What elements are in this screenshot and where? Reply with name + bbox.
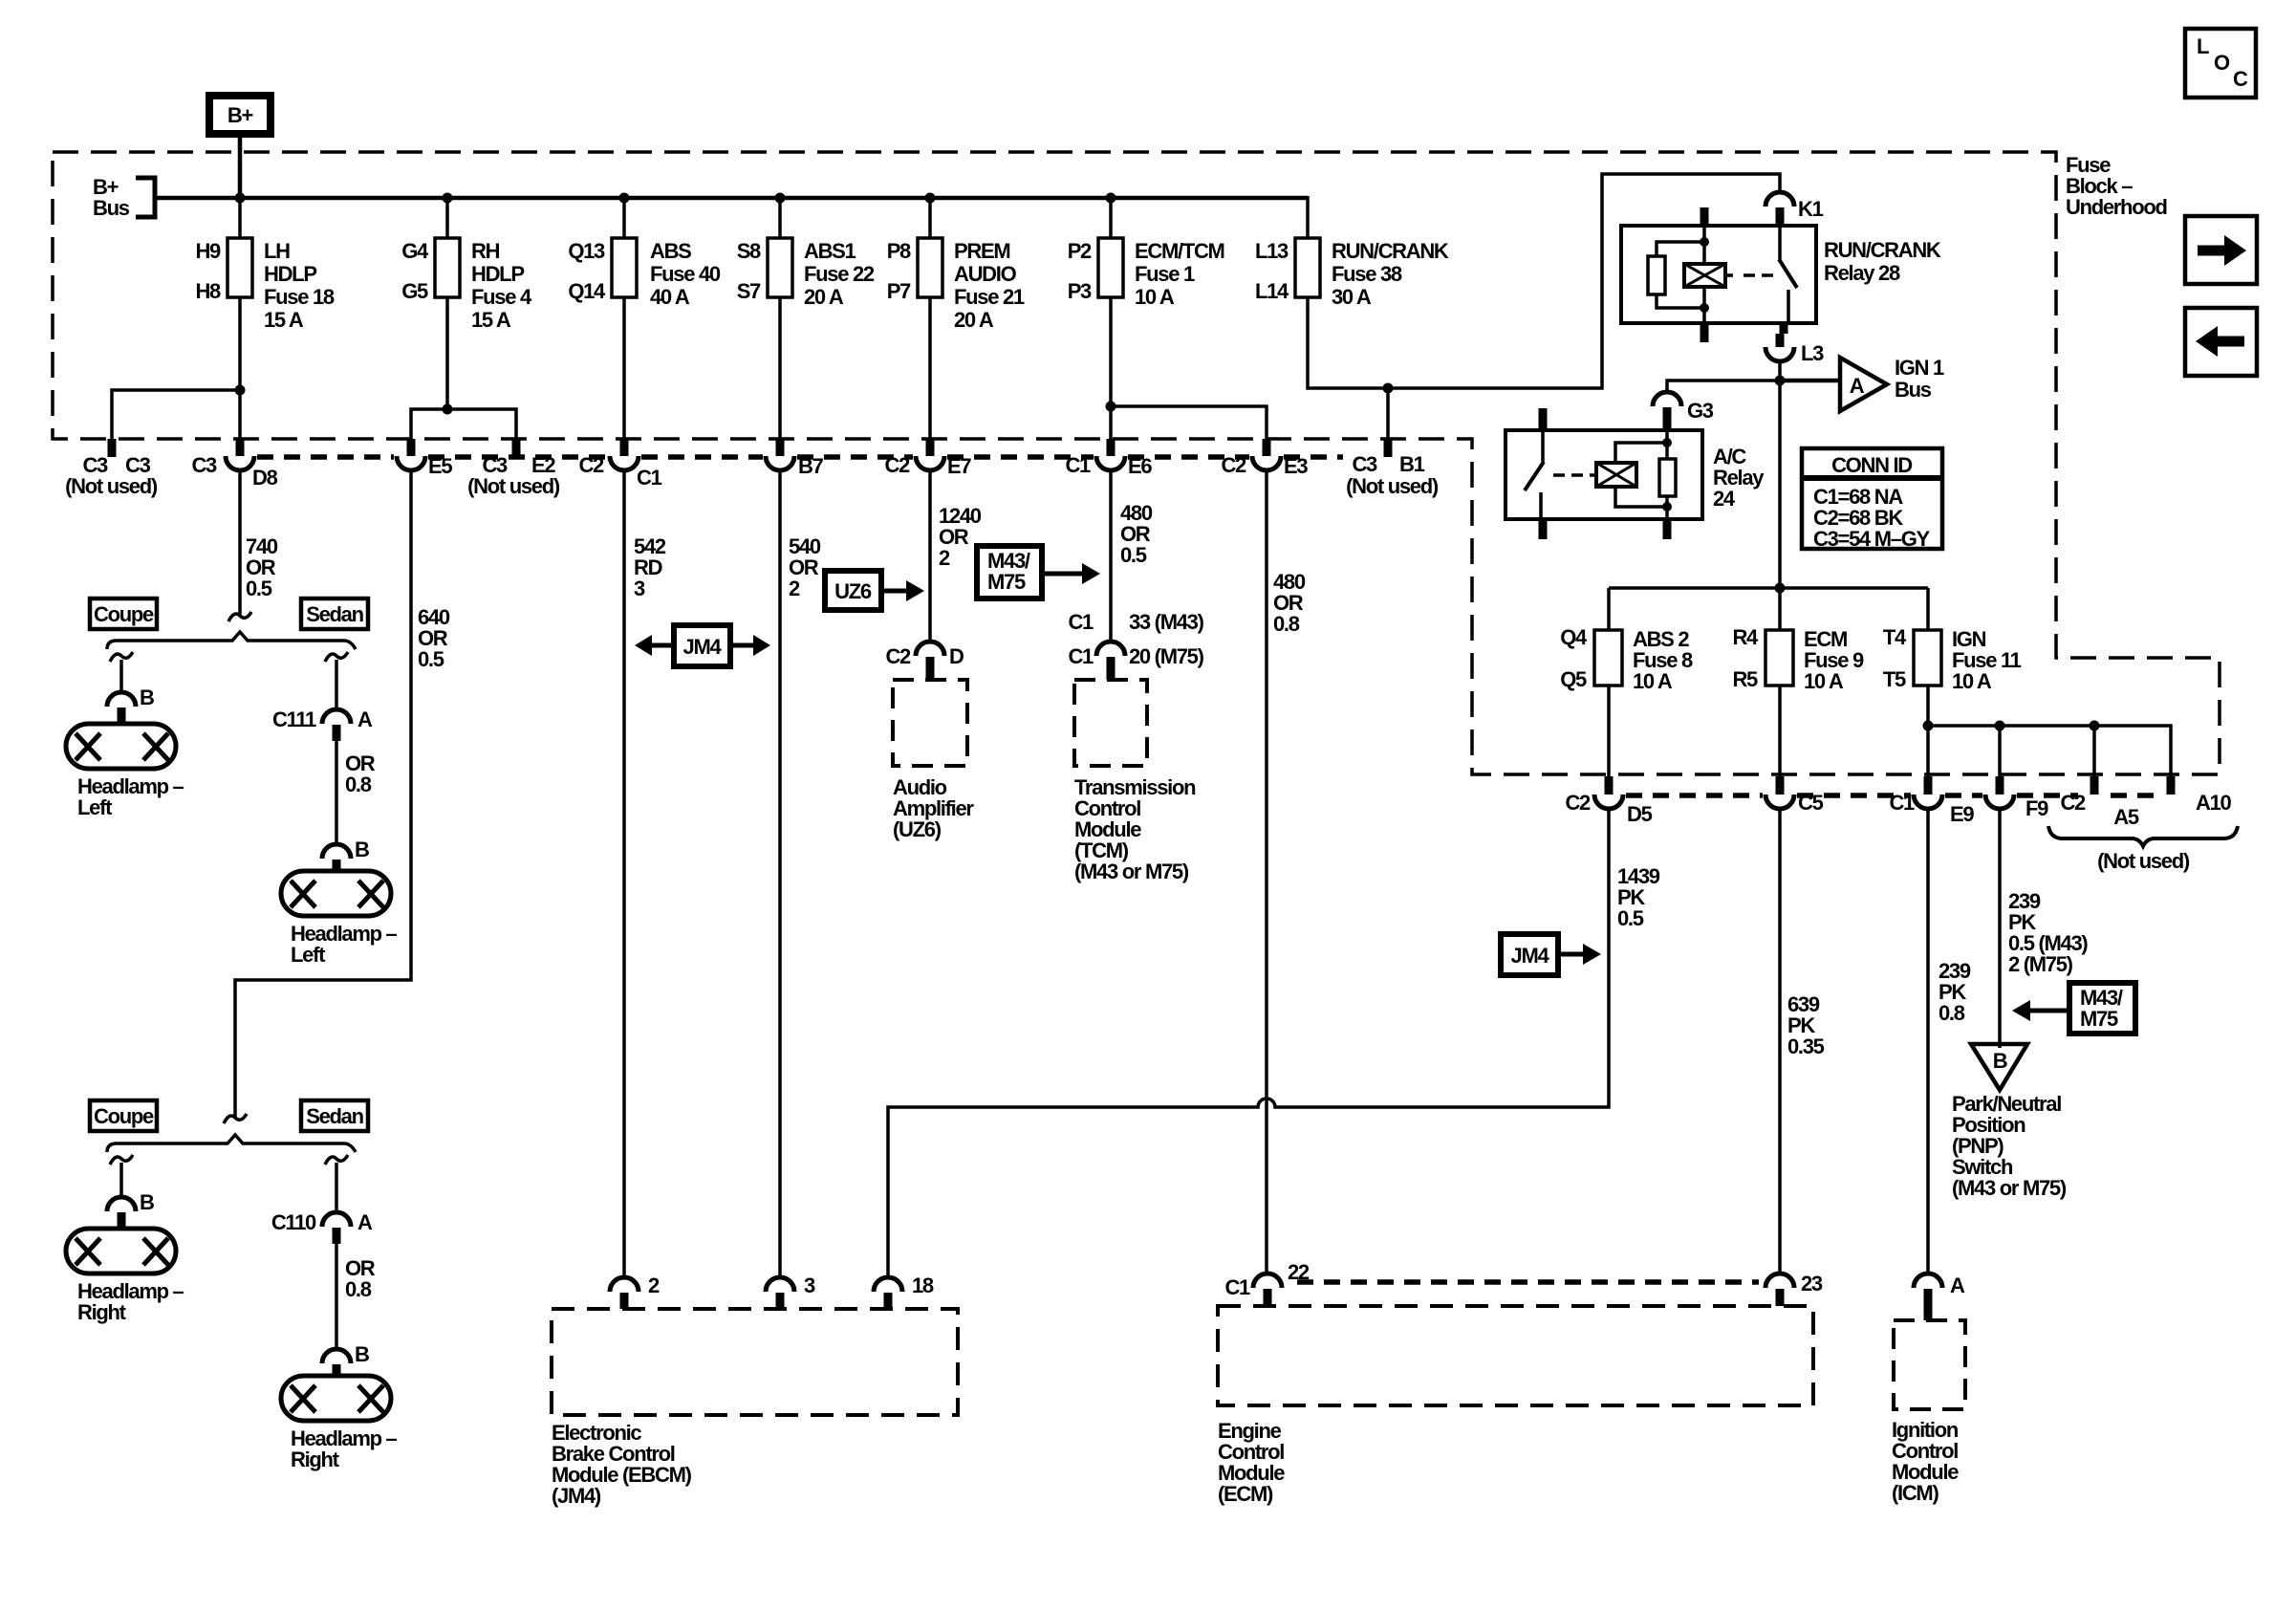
- svg-text:C111: C111: [272, 708, 316, 731]
- label box M43/M75 (PNP pointer) with arrow: [2012, 983, 2135, 1034]
- not used brace: [2048, 826, 2238, 846]
- svg-text:HDLP: HDLP: [471, 262, 524, 286]
- wire break symbol: [224, 1114, 247, 1123]
- svg-text:(M43 or M75): (M43 or M75): [1952, 1176, 2067, 1200]
- svg-text:33 (M43): 33 (M43): [1129, 610, 1204, 634]
- connector ECM pin 23: [1765, 1272, 1823, 1306]
- relay resistor (main branch): [1665, 430, 1669, 459]
- svg-text:S7: S7: [737, 279, 761, 303]
- svg-text:H9: H9: [195, 239, 221, 263]
- connector stub A5: [2090, 776, 2099, 795]
- electronic brake control module box: [552, 1309, 958, 1508]
- wire branch to C3 stub: [112, 390, 240, 439]
- svg-text:P2: P2: [1068, 239, 1092, 263]
- wire label 740 OR 0.5: [246, 534, 278, 600]
- svg-text:Bus: Bus: [1895, 378, 1932, 402]
- svg-text:Left: Left: [77, 795, 113, 819]
- wire bus drop to LH HDLP fuse: [238, 198, 242, 238]
- wire drop to ECM fuse: [1778, 588, 1782, 630]
- svg-text:G4: G4: [401, 239, 429, 263]
- wire C5 to ECM pin 23: [1778, 809, 1782, 1274]
- svg-text:A5: A5: [2113, 805, 2139, 829]
- headlamp left (coupe): [66, 724, 184, 819]
- svg-text:Q5: Q5: [1560, 667, 1587, 691]
- wire junction to IGN1 bus triangle: [1780, 379, 1840, 383]
- audio amplifier box: [893, 680, 974, 841]
- wire left branch to headlamp B: [119, 1163, 123, 1197]
- svg-text:3: 3: [634, 577, 645, 600]
- wire label 480 OR 0.8: [1273, 570, 1306, 636]
- svg-text:P3: P3: [1068, 279, 1092, 303]
- connector C110 A: [271, 1210, 373, 1244]
- svg-text:RH: RH: [471, 239, 500, 263]
- headlamp right (coupe): [66, 1229, 184, 1324]
- svg-text:L: L: [2197, 34, 2209, 58]
- svg-text:HDLP: HDLP: [264, 262, 316, 286]
- svg-text:Coupe: Coupe: [94, 602, 154, 626]
- svg-text:0.8: 0.8: [345, 1277, 372, 1301]
- CONN ID table: [1802, 448, 1942, 551]
- wire label OR 0.8: [345, 1256, 376, 1301]
- connector D8: [191, 439, 277, 490]
- relay coil (box-X): [1590, 473, 1596, 477]
- svg-text:RUN/CRANK: RUN/CRANK: [1332, 239, 1449, 263]
- svg-text:C1: C1: [1224, 1275, 1250, 1299]
- label box Coupe: [90, 1100, 157, 1131]
- wire junction to G3: [1667, 381, 1780, 392]
- coil pin stub top: [1700, 207, 1709, 226]
- switch pin stub bottom: [1780, 323, 1788, 334]
- svg-text:H8: H8: [195, 279, 221, 303]
- connector C5: [1765, 776, 1824, 815]
- svg-text:B1: B1: [1399, 452, 1425, 476]
- wire C1 ABS to EBCM pin 2: [622, 470, 626, 1277]
- label Fuse Block Underhood: [2066, 153, 2167, 219]
- wire break symbol right branch: [325, 652, 348, 662]
- wire D5 to EBCM pin 18 (with hop over E3): [888, 809, 1609, 1277]
- label box UZ6 with arrow: [825, 571, 924, 610]
- svg-text:T5: T5: [1883, 667, 1906, 691]
- wire ECM/TCM fuse output: [1109, 297, 1113, 442]
- wire label 542 RD 3: [634, 534, 666, 600]
- connector EBCM pin 18: [874, 1274, 934, 1309]
- svg-text:0.8: 0.8: [1273, 612, 1300, 636]
- connector E3: [1221, 439, 1308, 478]
- svg-text:(UZ6): (UZ6): [893, 817, 942, 841]
- connector C1 (ABS): [578, 439, 661, 490]
- fuse 1 ECM/TCM: [1068, 238, 1224, 309]
- wire sedan branch to C111: [335, 660, 338, 709]
- node junction ECM/TCM output: [1106, 402, 1116, 412]
- svg-text:C1: C1: [637, 466, 662, 490]
- wire bus corner drop to RUN/CRANK fuse: [1306, 196, 1310, 238]
- connector G3: [1653, 392, 1714, 430]
- wire RH fuse output: [445, 297, 449, 409]
- svg-text:D: D: [949, 644, 964, 668]
- svg-text:Fuse 22: Fuse 22: [804, 262, 875, 286]
- svg-text:C110: C110: [271, 1210, 316, 1234]
- wire label 1240 OR 2: [939, 504, 982, 570]
- wire E9 to ICM A: [1926, 809, 1930, 1274]
- headlamp left (sedan): [281, 871, 398, 967]
- svg-text:M75: M75: [987, 570, 1026, 594]
- connector EBCM pin 2: [610, 1274, 660, 1309]
- switch pin stub bottom: [1539, 519, 1548, 539]
- svg-text:S8: S8: [737, 239, 761, 263]
- connector D5: [1565, 776, 1652, 826]
- svg-text:15 A: 15 A: [471, 308, 511, 332]
- LOC page symbol: [2185, 29, 2256, 98]
- svg-text:Sedan: Sedan: [306, 1104, 363, 1128]
- svg-text:G5: G5: [401, 279, 428, 303]
- wire label 239 PK 0.5 (M43) 2 (M75): [2008, 889, 2088, 976]
- svg-text:20 (M75): 20 (M75): [1129, 644, 1204, 668]
- svg-text:JM4: JM4: [1511, 944, 1550, 968]
- svg-text:PREM: PREM: [954, 239, 1009, 263]
- svg-text:Q4: Q4: [1560, 625, 1588, 649]
- label box Sedan: [301, 1100, 368, 1131]
- ignition control module box: [1892, 1320, 1965, 1505]
- wire bus drop to RH HDLP fuse: [445, 198, 449, 238]
- svg-text:15 A: 15 A: [264, 308, 304, 332]
- wire branch to E2 stub: [447, 409, 516, 439]
- svg-text:Coupe: Coupe: [94, 1104, 154, 1128]
- node junction B1 tap: [1383, 383, 1394, 394]
- svg-text:18: 18: [912, 1274, 934, 1297]
- svg-text:Underhood: Underhood: [2066, 195, 2167, 219]
- svg-text:Relay 28: Relay 28: [1824, 261, 1900, 285]
- connector E6: [1065, 439, 1152, 478]
- svg-text:Bus: Bus: [93, 196, 130, 220]
- node junction on LH output: [235, 385, 246, 396]
- transmission control module box: [1074, 680, 1196, 883]
- svg-text:RUN/CRANK: RUN/CRANK: [1824, 238, 1941, 262]
- wire E3 to ECM pin 22: [1265, 470, 1268, 1274]
- svg-text:E9: E9: [1950, 802, 1974, 826]
- wire label 480 OR 0.5: [1120, 501, 1153, 567]
- engine control module box: [1218, 1306, 1813, 1506]
- labels C2 A5 A10: [2060, 791, 2231, 829]
- wire branch to E3: [1111, 406, 1267, 439]
- connector C1 TCM pins 33/20: [1068, 610, 1203, 680]
- svg-text:CONN ID: CONN ID: [1831, 453, 1912, 477]
- svg-text:C3: C3: [1352, 452, 1377, 476]
- svg-text:Sedan: Sedan: [306, 602, 363, 626]
- fuse 11 IGN: [1883, 625, 2022, 693]
- svg-text:Fuse 1: Fuse 1: [1135, 262, 1195, 286]
- switch pin stub top (not connected): [1539, 408, 1548, 430]
- power symbol B+: [209, 96, 271, 134]
- svg-text:LH: LH: [264, 239, 290, 263]
- node junction IGN output: [1923, 721, 1934, 731]
- relay 24 dashed actuator link: [1553, 473, 1583, 477]
- svg-text:10 A: 10 A: [1135, 285, 1175, 309]
- svg-text:L14: L14: [1255, 279, 1289, 303]
- wire bus drop to PREM AUDIO fuse: [928, 198, 932, 238]
- nav arrow box right: [2185, 216, 2257, 284]
- wire label 239 PK 0.8: [1939, 959, 1971, 1025]
- svg-text:B: B: [140, 686, 154, 709]
- svg-text:B: B: [355, 838, 369, 861]
- svg-text:AUDIO: AUDIO: [954, 262, 1017, 286]
- wire F9 to PNP switch B: [1998, 809, 2002, 1048]
- svg-text:UZ6: UZ6: [834, 579, 872, 603]
- wire break symbol left branch: [110, 652, 133, 662]
- connector stub B1 C3 not used: [1346, 439, 1439, 498]
- svg-text:2: 2: [648, 1274, 660, 1297]
- svg-text:10 A: 10 A: [1633, 669, 1673, 693]
- svg-text:C1: C1: [1068, 610, 1094, 634]
- coil parallel links: [1615, 443, 1667, 463]
- wire A5 drop: [2092, 726, 2096, 776]
- svg-text:(ECM): (ECM): [1218, 1482, 1273, 1506]
- wire left branch to headlamp B: [119, 660, 123, 692]
- svg-text:0.35: 0.35: [1787, 1034, 1825, 1058]
- svg-text:A10: A10: [2196, 791, 2232, 815]
- wire B+ to bus: [238, 134, 243, 198]
- svg-text:Fuse 21: Fuse 21: [954, 285, 1025, 309]
- wire B+ bus: [155, 196, 1308, 201]
- wire label 640 OR 0.5: [418, 605, 450, 671]
- fuse 18 LH HDLP: [195, 238, 334, 332]
- wire bus drop to ABS fuse: [622, 198, 626, 238]
- wire break symbol right branch: [325, 1155, 348, 1165]
- fuse 4 RH HDLP: [401, 238, 532, 332]
- svg-text:D8: D8: [252, 466, 278, 490]
- connector C2 D (audio amplifier): [885, 642, 964, 680]
- svg-text:3: 3: [804, 1274, 815, 1297]
- svg-text:Fuse 4: Fuse 4: [471, 285, 532, 309]
- svg-text:0.5: 0.5: [418, 647, 444, 671]
- svg-text:(ICM): (ICM): [1892, 1481, 1939, 1505]
- label box M43/M75 (TCM pointer) with arrow: [977, 546, 1100, 599]
- svg-text:24: 24: [1713, 487, 1736, 511]
- connector B (headlamp right sedan): [322, 1342, 369, 1376]
- wire PREM AUDIO fuse output to E7: [928, 297, 932, 442]
- svg-text:ECM/TCM: ECM/TCM: [1135, 239, 1224, 263]
- connector C111 A: [272, 708, 373, 741]
- svg-text:2: 2: [789, 577, 800, 600]
- svg-text:0.8: 0.8: [345, 773, 372, 796]
- relay 28 RUN/CRANK: [1621, 207, 1941, 342]
- connector B (headlamp left coupe): [107, 686, 154, 724]
- label box JM4 with double arrows: [635, 625, 770, 666]
- svg-text:T4: T4: [1883, 625, 1907, 649]
- wire C111 to headlamp B: [335, 741, 338, 844]
- svg-text:(Not used): (Not used): [1346, 474, 1439, 498]
- label box JM4 (EBCM pointer) with arrow: [1501, 934, 1601, 975]
- wire ECM fuse to C5: [1778, 686, 1782, 776]
- wire IGN distribution to A10: [1928, 726, 2171, 776]
- svg-text:A: A: [1950, 1274, 1965, 1297]
- svg-text:20 A: 20 A: [804, 285, 844, 309]
- wire F9 drop: [1998, 726, 2002, 776]
- svg-text:(Not used): (Not used): [2097, 849, 2190, 873]
- option split brace: [107, 632, 356, 649]
- svg-text:IGN 1: IGN 1: [1895, 356, 1944, 380]
- headlamp right (sedan): [281, 1376, 398, 1471]
- svg-text:0.5: 0.5: [246, 577, 272, 600]
- connector K1: [1765, 192, 1824, 226]
- svg-text:R5: R5: [1732, 667, 1758, 691]
- wire ABS1 fuse output to B7: [778, 297, 782, 442]
- svg-text:ABS: ABS: [650, 239, 691, 263]
- label box Coupe: [90, 599, 157, 629]
- wire branch to E5: [411, 409, 447, 439]
- svg-text:2 (M75): 2 (M75): [2008, 952, 2073, 976]
- wire sedan branch to C110: [335, 1163, 338, 1212]
- connector stub E2 C3 not used: [467, 439, 560, 498]
- svg-text:G3: G3: [1687, 399, 1714, 423]
- coil pin stub bottom: [1663, 519, 1672, 539]
- dotted connector row line (upper): [257, 454, 1343, 460]
- connector B7: [766, 439, 824, 478]
- svg-text:C: C: [2233, 67, 2248, 91]
- fuse 21 PREM AUDIO: [887, 238, 1025, 332]
- wire E5 to coupe/sedan split (right headlamp feed): [235, 470, 411, 1118]
- wire B7 to EBCM pin 3: [778, 470, 782, 1277]
- svg-text:23: 23: [1801, 1272, 1823, 1295]
- svg-text:R4: R4: [1732, 625, 1759, 649]
- connector B (headlamp right coupe): [107, 1190, 154, 1229]
- coil wire: [1702, 226, 1706, 264]
- label box Sedan: [301, 599, 368, 629]
- relay resistor: [1657, 242, 1704, 256]
- svg-text:P8: P8: [887, 239, 911, 263]
- connector ECM pin 22 C1: [1224, 1260, 1309, 1306]
- connector E5: [397, 439, 452, 478]
- connector stub C3 not used (left): [108, 439, 117, 457]
- svg-text:C1: C1: [1068, 644, 1094, 668]
- fuse 22 ABS1: [737, 238, 875, 309]
- svg-text:(Not used): (Not used): [467, 474, 560, 498]
- wire ABS fuse output to C1: [622, 297, 626, 442]
- node junction RH output: [443, 404, 453, 415]
- svg-text:A: A: [357, 708, 373, 731]
- relay 24 A/C: [1505, 408, 1765, 539]
- lower fuse feed distribution: [1609, 586, 1928, 590]
- wire drop to IGN fuse: [1926, 588, 1930, 630]
- wire IGN fuse output: [1926, 686, 1930, 776]
- svg-text:B: B: [1993, 1049, 2007, 1073]
- connector ICM pin A: [1914, 1274, 1965, 1320]
- svg-text:Fuse 40: Fuse 40: [650, 262, 721, 286]
- wire drop to ABS2 fuse: [1607, 588, 1611, 630]
- svg-text:20 A: 20 A: [954, 308, 994, 332]
- svg-text:10 A: 10 A: [1952, 669, 1992, 693]
- svg-text:M75: M75: [2080, 1007, 2118, 1031]
- node junction dots on bus: [235, 193, 1116, 204]
- svg-text:B+: B+: [227, 103, 253, 127]
- svg-text:2: 2: [939, 546, 950, 570]
- svg-text:(JM4): (JM4): [552, 1484, 601, 1508]
- svg-text:Q13: Q13: [568, 239, 605, 263]
- nav arrow box left: [2185, 308, 2257, 376]
- connector L3: [1765, 334, 1824, 365]
- connector E7: [884, 439, 971, 478]
- svg-text:A: A: [357, 1210, 373, 1234]
- svg-text:B: B: [355, 1342, 369, 1366]
- wire bus drop to ECM/TCM fuse: [1109, 198, 1113, 238]
- connector F9: [1985, 776, 2048, 820]
- svg-text:C3: C3: [191, 453, 217, 477]
- svg-text:Left: Left: [291, 943, 326, 967]
- wire label OR 0.8: [345, 751, 376, 796]
- fuse 38 RUN/CRANK: [1255, 238, 1449, 309]
- svg-text:C3=54 M–GY: C3=54 M–GY: [1813, 527, 1931, 551]
- node PNP triangle B: [1971, 1044, 2027, 1090]
- wire ABS2 fuse to D5: [1607, 686, 1611, 776]
- wire break symbol: [228, 612, 251, 621]
- wire E6 to TCM: [1109, 470, 1113, 642]
- connector EBCM pin 3: [766, 1274, 815, 1309]
- svg-text:A: A: [1850, 374, 1865, 398]
- node IGN 1 Bus triangle A: [1840, 356, 1944, 411]
- svg-text:O: O: [2214, 51, 2230, 75]
- wire bus drop to ABS1 fuse: [778, 198, 782, 238]
- svg-text:0.5: 0.5: [1617, 906, 1644, 930]
- svg-text:B: B: [140, 1190, 154, 1214]
- wire L3 to IGN1 junction: [1778, 361, 1782, 588]
- connector stub A10: [2167, 776, 2176, 795]
- svg-text:Q14: Q14: [568, 279, 606, 303]
- svg-text:C2: C2: [885, 644, 911, 668]
- svg-text:Fuse 38: Fuse 38: [1332, 262, 1402, 286]
- svg-text:L13: L13: [1255, 239, 1289, 263]
- svg-text:JM4: JM4: [683, 635, 723, 659]
- connector E9: [1889, 776, 1974, 826]
- fuse 9 ECM: [1732, 625, 1863, 693]
- node B+ Bus label and bracket: [93, 175, 155, 220]
- svg-text:P7: P7: [887, 279, 911, 303]
- svg-text:(Not used): (Not used): [65, 474, 158, 498]
- relay 24 switch: [1541, 430, 1545, 462]
- svg-text:(M43 or M75): (M43 or M75): [1074, 860, 1189, 883]
- svg-text:40 A: 40 A: [650, 285, 690, 309]
- label Park/Neutral Position switch: [1952, 1092, 2067, 1200]
- coil pin stub bottom: [1700, 323, 1709, 342]
- fuse 8 ABS 2: [1560, 625, 1693, 693]
- svg-text:Fuse 18: Fuse 18: [264, 285, 335, 309]
- svg-text:30 A: 30 A: [1332, 285, 1372, 309]
- svg-text:F9: F9: [2025, 796, 2048, 820]
- wire label 540 OR 2: [789, 534, 821, 600]
- fuse 40 ABS: [568, 238, 721, 309]
- node junction IGN1: [1775, 376, 1786, 386]
- fuse block underhood dashed outline: [53, 152, 2220, 774]
- svg-text:10 A: 10 A: [1804, 669, 1844, 693]
- wire label 1439 PK 0.5: [1617, 864, 1660, 930]
- svg-text:ABS1: ABS1: [804, 239, 856, 263]
- wire E7 to audio amplifier: [928, 470, 932, 642]
- svg-text:Right: Right: [291, 1448, 340, 1471]
- wire LH fuse output to D8: [238, 297, 242, 442]
- relay 28 switch: [1778, 226, 1782, 259]
- svg-text:0.5: 0.5: [1120, 543, 1147, 567]
- wire RUN/CRANK fuse output to relay loop: [1308, 174, 1780, 388]
- wire label 639 PK 0.35: [1787, 992, 1825, 1058]
- svg-text:K1: K1: [1798, 197, 1824, 221]
- relay 28 dashed actuator link: [1744, 273, 1773, 277]
- wire D8 down to split: [238, 470, 242, 616]
- svg-text:D5: D5: [1627, 802, 1653, 826]
- svg-text:L3: L3: [1801, 341, 1824, 365]
- dotted connector row line (lower): [1626, 793, 2155, 798]
- wire break symbol left branch: [110, 1155, 133, 1165]
- svg-text:0.8: 0.8: [1939, 1001, 1965, 1025]
- option split brace: [107, 1135, 356, 1152]
- wire C110 to headlamp B: [335, 1244, 338, 1349]
